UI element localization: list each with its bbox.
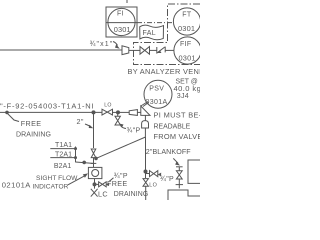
drain valve 3/4 below main — [115, 116, 120, 125]
leader — [7, 113, 19, 122]
wire into analyzer box — [165, 49, 174, 51]
svg-text:¾"P: ¾"P — [160, 176, 174, 183]
leader blankoff to vent — [173, 158, 178, 163]
svg-text:LO: LO — [104, 102, 112, 108]
leader to sight glass — [68, 176, 84, 185]
wire below sight glass — [94, 179, 96, 189]
svg-text:READABLE: READABLE — [154, 123, 191, 130]
vent valve vertical — [178, 167, 180, 171]
instrument PSV 0301A — [144, 80, 172, 108]
node free draining junction — [5, 111, 9, 115]
reducer PSV inlet — [129, 110, 137, 116]
svg-text:FREE: FREE — [107, 179, 128, 188]
svg-text:LC: LC — [98, 189, 108, 198]
wire main 2 inch line — [0, 111, 102, 113]
signal line FI to FT dash-dot — [137, 22, 174, 24]
svg-text:FROM VALVE: FROM VALVE — [154, 132, 201, 141]
blind flange vent top — [176, 166, 183, 168]
PSV outlet drop — [144, 115, 146, 120]
instrument FI 0301 shared display square — [106, 7, 137, 37]
analyzer vendor package boundary dash-dot — [134, 4, 201, 65]
branch drain valve — [97, 183, 99, 185]
svg-text:PI MUST BE-: PI MUST BE- — [154, 111, 201, 120]
wire sample line top — [0, 49, 122, 51]
svg-text:0301: 0301 — [179, 53, 196, 62]
svg-text:0301: 0301 — [178, 24, 195, 33]
svg-text:BY ANALYZER VENDOR: BY ANALYZER VENDOR — [128, 67, 201, 76]
svg-text:¾"x1": ¾"x1" — [90, 41, 114, 48]
node drain junction — [93, 182, 97, 186]
svg-text:0301A: 0301A — [146, 99, 168, 106]
wire outlet down — [144, 128, 146, 137]
svg-text:2": 2" — [77, 117, 84, 126]
equipment box right — [188, 160, 200, 183]
svg-text:0301: 0301 — [114, 25, 131, 34]
gate valve top sample line — [140, 47, 150, 55]
wire — [93, 158, 95, 167]
node diagonal junction — [94, 157, 98, 161]
tag leader vertical — [75, 147, 77, 163]
svg-text:"-F-92-054003-T1A1-NI: "-F-92-054003-T1A1-NI — [0, 101, 94, 110]
wire vertical 2 inch blankoff line — [145, 137, 147, 178]
branch valve 3/4 P right — [146, 173, 150, 175]
node junction — [144, 170, 148, 174]
reducer top 3/4x1 — [122, 46, 129, 55]
svg-text:FT: FT — [182, 11, 192, 18]
check valve sample line — [156, 47, 158, 54]
svg-text:INDICATOR: INDICATOR — [32, 183, 68, 190]
tag leader to pipe — [76, 162, 94, 163]
svg-text:FREE: FREE — [21, 119, 42, 128]
svg-text:02101A: 02101A — [2, 181, 32, 190]
wire — [150, 49, 157, 51]
drip funnel bell — [142, 121, 149, 128]
node junction to drain column — [92, 110, 96, 114]
svg-text:FI: FI — [117, 10, 124, 17]
svg-text:FAL: FAL — [143, 30, 157, 37]
relief valve PSV body — [141, 106, 150, 115]
instrument FT 0301 — [173, 8, 200, 35]
svg-text:B2A1: B2A1 — [54, 163, 72, 170]
wire to bottom — [145, 186, 147, 200]
equipment outline stepped bottom right — [168, 190, 200, 200]
leader from 3/4"P — [109, 178, 114, 182]
svg-text:SIGHT FLOW: SIGHT FLOW — [36, 175, 78, 182]
svg-text:¾"P: ¾"P — [127, 127, 141, 134]
wire — [129, 49, 140, 51]
wire drain column — [93, 112, 95, 148]
DCS flag FAL — [140, 25, 164, 40]
leader to reducer — [113, 42, 118, 46]
instrument FIF 0301 — [174, 37, 201, 64]
svg-text:FIF: FIF — [180, 41, 192, 48]
flange — [91, 162, 97, 164]
wire down — [178, 179, 180, 188]
svg-text:2"BLANKOFF: 2"BLANKOFF — [146, 148, 191, 156]
svg-text:DRAINING: DRAINING — [114, 191, 149, 198]
svg-text:DRAINING: DRAINING — [16, 131, 51, 138]
stub PSV tag to valve — [143, 103, 149, 107]
sight flow indicator — [88, 167, 102, 178]
globe valve on drain column — [91, 149, 96, 158]
leader — [85, 124, 91, 127]
node junction main line — [116, 110, 120, 114]
gate valve LO main line — [102, 109, 113, 115]
signal line up from FI — [126, 0, 128, 4]
svg-text:LO: LO — [149, 182, 157, 188]
wire diagonal 2in drain header — [96, 137, 146, 158]
svg-text:PSV: PSV — [149, 86, 164, 93]
flange pair — [176, 184, 183, 186]
svg-text:3J4: 3J4 — [177, 92, 189, 100]
drain funnel X — [91, 189, 98, 197]
wire — [113, 111, 129, 113]
leader from 3/4"P note — [121, 126, 127, 129]
valve LO on blankoff line — [143, 179, 148, 187]
